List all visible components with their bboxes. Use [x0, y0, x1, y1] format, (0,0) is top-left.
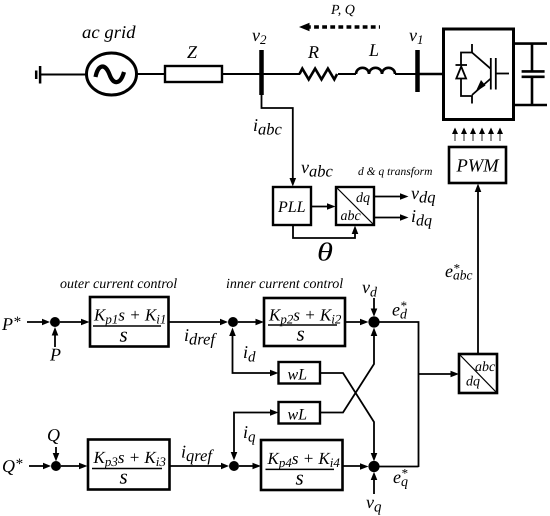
label Q: [48, 429, 60, 444]
wire i_abc tap: [262, 95, 293, 181]
label i_d: [244, 346, 256, 362]
label e*_d: [393, 301, 407, 318]
junction J6: [229, 461, 239, 471]
wire v2 to R: [261, 73, 300, 75]
wire J2 to block B2: [238, 321, 258, 323]
junction J3: [368, 316, 379, 327]
arrow wL1 into J4: [371, 453, 378, 462]
diode D1 lower lead: [461, 79, 472, 104]
label P: [50, 349, 61, 361]
wL block 2: [279, 402, 321, 424]
arrow into dq block: [327, 203, 336, 210]
junction J5: [51, 461, 61, 471]
label i_abc: [254, 119, 282, 135]
label PLL: [278, 202, 305, 212]
arrow into B3: [79, 463, 88, 469]
arrow v_dq: [400, 193, 409, 200]
arrow into J2: [220, 319, 228, 325]
PI block B2: [264, 298, 345, 346]
wire ground to ac source: [40, 74, 86, 76]
label v1: [409, 33, 422, 44]
arrow into junction J1: [42, 319, 50, 325]
wire i_dq output: [374, 217, 403, 219]
arrow v_q into J4: [371, 472, 378, 480]
wire J5 to block B3: [61, 465, 82, 467]
dq-abc transform block: [459, 354, 497, 393]
wire v_d down: [373, 298, 375, 311]
label ac grid: [83, 26, 136, 42]
arrow v_d into J3: [371, 309, 378, 317]
arrow into B4: [253, 463, 262, 469]
capacitor C1 bottom lead: [531, 77, 534, 105]
label v_dq: [411, 191, 435, 206]
ground: [36, 66, 40, 84]
label v_q: [366, 500, 381, 515]
arrow into wL2: [270, 409, 279, 416]
arrow into B1: [81, 319, 90, 325]
impedance Z box: [165, 66, 222, 82]
capacitor C1 top lead: [531, 44, 534, 72]
wire B1 to junction J2: [169, 321, 224, 323]
dc link wire bottom: [514, 104, 548, 107]
wire theta feedback: [293, 225, 355, 238]
abc-dq transform block: [336, 187, 374, 225]
wire Z to bus v2: [222, 73, 261, 75]
PLL box: [273, 187, 311, 225]
wire L to bus v1: [395, 73, 417, 75]
label i_dq: [412, 210, 432, 229]
arrow P into J1: [52, 327, 59, 336]
wire J6 to block B4: [239, 465, 255, 467]
wire v1 to converter: [418, 73, 443, 76]
arrow wL2 into J3: [371, 328, 378, 337]
wire B3 to junction J6: [170, 465, 225, 467]
junction J2: [228, 317, 238, 327]
arrow into J6: [221, 463, 229, 469]
label i_qref: [182, 446, 214, 465]
label i_q: [244, 426, 255, 445]
label theta: [319, 242, 333, 260]
arrow into J5: [43, 463, 51, 469]
converter U1 box: [444, 29, 514, 120]
label d & q transform: [358, 167, 432, 178]
wire v_dq output: [374, 196, 403, 198]
arrow into J3: [360, 319, 369, 325]
dashed arrow P,Q: [299, 23, 380, 32]
arrow Q into J5: [53, 453, 60, 462]
label v2: [252, 33, 266, 44]
junction J1: [50, 317, 60, 327]
ac source sine: [96, 66, 125, 82]
diode D1 cathode bar: [456, 64, 468, 66]
junction J4: [368, 461, 379, 472]
label Z: [187, 46, 197, 58]
wire i_d up into J2 and right to wL1: [233, 333, 274, 373]
diode D1 triangle: [456, 67, 466, 79]
wire ac source to Z: [136, 73, 165, 75]
wire rail tap to dq-abc block: [419, 373, 454, 375]
arrow into B2: [256, 319, 265, 325]
arrow i_d into J2: [229, 328, 236, 337]
arrow into J4: [360, 463, 369, 470]
wire Q down arrow: [55, 447, 57, 456]
PI block B1: [90, 297, 169, 347]
arrow into PWM: [475, 184, 482, 193]
label v_d: [362, 285, 377, 297]
ac source circle: [87, 53, 137, 95]
arrow into dq-abc block: [451, 371, 460, 378]
label PWM: [456, 159, 499, 171]
wire PLL to dq block: [311, 206, 330, 208]
label outer current control: [60, 278, 176, 288]
wire J4 to right rail: [379, 466, 418, 468]
gate drive arrows: [452, 128, 503, 142]
wire B2 to junction J3: [345, 321, 363, 323]
label P,Q: [331, 5, 355, 17]
label v_abc: [301, 165, 332, 177]
wire i_q down into J6 and right to wL2: [234, 413, 273, 456]
label L: [369, 44, 378, 56]
wire wL2 cross up to J3: [320, 333, 374, 413]
arrow theta into block: [352, 226, 359, 235]
IGBT Q1 body bar: [490, 58, 492, 90]
inductor L: [356, 68, 395, 74]
label e*_abc: [446, 264, 473, 280]
label i_dref: [185, 329, 217, 348]
wire e*_abc up to PWM: [477, 189, 479, 354]
wire P* to junction: [27, 321, 44, 323]
IGBT Q1 collector diagonal: [472, 53, 491, 69]
bus v1: [415, 50, 420, 92]
capacitor C1 plates: [522, 71, 545, 76]
resistor R: [300, 69, 338, 80]
converter IGBT collector lead: [461, 44, 472, 65]
IGBT Q1 gate lead: [496, 73, 509, 75]
label inner current control: [227, 278, 343, 288]
PI block B4: [261, 440, 343, 490]
IGBT Q1 emitter diagonal with arrow: [472, 79, 491, 96]
wire B4 to junction J4: [343, 465, 364, 467]
label R: [308, 46, 319, 58]
wire Q* to junction: [29, 465, 45, 467]
label e*_q: [394, 469, 408, 489]
wire v_q up: [373, 477, 375, 494]
wire J3 to right rail: [379, 322, 419, 467]
bus v2: [259, 50, 264, 95]
wL block 1: [279, 362, 321, 384]
wire R to L: [338, 73, 356, 75]
PWM box: [449, 147, 506, 183]
wire J1 to block B1: [60, 321, 84, 323]
IGBT Q1 gate bar: [495, 58, 497, 90]
arrow i_dq: [400, 214, 409, 221]
PI block B3: [88, 440, 170, 490]
wire wL1 cross down to J4: [320, 373, 374, 456]
label P*: [2, 317, 21, 330]
arrow into wL1: [270, 370, 279, 377]
arrow i_q into J6: [231, 452, 238, 461]
wire P up arrow: [54, 332, 56, 347]
dc link wire top: [514, 42, 548, 45]
label Q*: [3, 459, 23, 475]
arrow into PLL: [290, 178, 297, 187]
